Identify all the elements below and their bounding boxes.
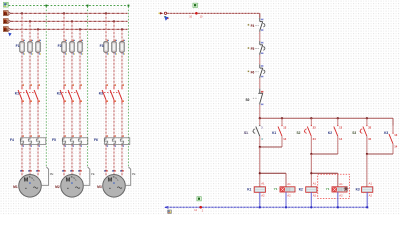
svg-text:M: M — [24, 177, 29, 183]
motor M2 — [61, 170, 84, 197]
svg-text:PE: PE — [50, 172, 54, 176]
svg-text:L3: L3 — [4, 28, 8, 32]
contact F5 (NC) — [255, 41, 265, 55]
svg-text:S2: S2 — [297, 131, 301, 135]
terminal N (neutral) — [164, 206, 168, 209]
wire K1aux lower — [281, 136, 283, 147]
wire S3 lower — [366, 136, 368, 154]
fuse F1 (3 poles) — [20, 40, 41, 55]
svg-text:14: 14 — [394, 145, 397, 149]
PE earth line (green dashed) — [9, 5, 129, 7]
svg-text:F6: F6 — [94, 138, 98, 142]
pushbutton S0 (NC) — [253, 89, 264, 105]
svg-text:A1: A1 — [261, 182, 265, 186]
svg-text:23: 23 — [313, 126, 316, 130]
svg-text:24: 24 — [313, 137, 316, 141]
wire branch1 pole2 overload-to-motor — [29, 144, 31, 176]
svg-text:A2: A2 — [261, 193, 265, 197]
wire branch2 pole2 overload-to-motor — [71, 144, 73, 176]
motor M1 — [19, 170, 42, 197]
fuse F2 (3 poles) — [62, 40, 83, 55]
bus junction x=282 — [281, 117, 283, 119]
svg-text:A1: A1 — [287, 182, 291, 186]
wire S1 lower — [259, 136, 261, 147]
tag icon N — [168, 210, 172, 213]
svg-text:14: 14 — [339, 137, 342, 141]
net tag PE — [3, 2, 8, 7]
svg-text:PE: PE — [132, 172, 136, 176]
svg-text:PE: PE — [91, 172, 95, 176]
svg-text:K1: K1 — [247, 188, 251, 192]
selection marquee (dashed) — [318, 174, 350, 198]
coil Y1 — [280, 182, 295, 198]
svg-text:F2: F2 — [58, 44, 62, 48]
svg-text:L1: L1 — [4, 12, 8, 16]
svg-text:F5: F5 — [251, 47, 255, 51]
net tag L2 — [3, 19, 8, 24]
neutral arrow marker below L3 — [8, 33, 11, 37]
svg-text:A2: A2 — [339, 194, 343, 198]
wire branch1 pole2 upper — [29, 21, 31, 42]
svg-text:S1: S1 — [244, 131, 248, 135]
svg-text:13: 13 — [339, 126, 342, 130]
svg-text:K3: K3 — [99, 91, 103, 95]
junction coil feed 2 — [310, 172, 312, 174]
junction on phase at x=72 — [71, 20, 73, 22]
contactor coil K2 — [306, 182, 317, 198]
wire branch1 pole2 fuse-to-contact — [29, 52, 31, 86]
wire branch3 pole2 upper — [113, 21, 115, 42]
wire branch1 pole1 fuse-to-contact — [21, 52, 23, 86]
junction on phase at x=80 — [79, 28, 81, 30]
aux contact K2 (NO) — [334, 118, 343, 141]
pushbutton S2 (NO) — [304, 118, 316, 141]
PE junction node 1 — [45, 5, 47, 7]
thermal overload F4 — [20, 135, 46, 147]
thermal overload F5 — [62, 135, 88, 147]
contactor K2 main contacts — [60, 84, 82, 103]
neutral drop wire x=286 — [285, 192, 287, 207]
terminal L (control supply) — [159, 13, 160, 14]
wire branch2 pole1 upper — [63, 13, 65, 42]
svg-text:M3: M3 — [97, 185, 102, 189]
svg-text:K3: K3 — [356, 188, 360, 192]
svg-text:M: M — [108, 177, 113, 183]
PE wire to motor M1 — [41, 167, 48, 186]
wire branch2 pole3 upper — [79, 29, 81, 42]
wire branch3 pole3 contact-to-overload — [121, 103, 123, 138]
svg-text:S3: S3 — [352, 131, 356, 135]
wire S0 to bus — [259, 105, 261, 119]
bus junction x=366.9 — [366, 117, 368, 119]
wire branch2 pole1 fuse-to-contact — [63, 52, 65, 86]
svg-text:K2: K2 — [328, 131, 332, 135]
svg-text:F3: F3 — [100, 44, 104, 48]
PE junction node 2 — [87, 5, 89, 7]
svg-text:13: 13 — [283, 126, 286, 130]
branch wire to coil Y1 — [260, 172, 286, 174]
wire branch1 pole1 upper — [21, 13, 23, 42]
wire branch3 pole3 fuse-to-contact — [121, 52, 123, 86]
wire branch2 pole2 upper — [71, 21, 73, 42]
control bus wire — [260, 117, 393, 119]
junction on phase at x=114 — [113, 20, 115, 22]
svg-text:F6: F6 — [251, 70, 255, 74]
contactor coil K1 — [254, 182, 265, 198]
svg-text:M2: M2 — [55, 185, 60, 189]
PE drop wire 3 — [127, 7, 129, 168]
terminal connector L2 — [9, 20, 11, 23]
svg-text:A2: A2 — [287, 194, 291, 198]
junction S3/K3 loop — [366, 153, 368, 155]
svg-text:K1: K1 — [272, 131, 276, 135]
bus junction x=337.8 — [337, 117, 339, 119]
net tag 1 (top) — [193, 3, 198, 7]
contactor K1 main contacts — [18, 84, 40, 103]
net link dot on N — [199, 206, 202, 209]
svg-text:K2: K2 — [299, 188, 303, 192]
svg-text:13: 13 — [394, 133, 397, 137]
PE wire to motor M3 — [125, 167, 131, 186]
junction on phase at x=122 — [121, 28, 123, 30]
pushbutton S3 (NO) — [360, 118, 372, 141]
svg-text:33: 33 — [368, 126, 371, 130]
neutral junction x=337.8 — [337, 206, 339, 208]
junction S2/K2 loop — [310, 153, 312, 155]
phase line L1 — [11, 12, 128, 14]
wire branch3 pole2 overload-to-motor — [113, 144, 115, 176]
PE wire to motor M2 — [83, 167, 90, 186]
svg-text:F4: F4 — [251, 24, 255, 28]
neutral junction x=367.2 — [366, 206, 368, 208]
net tag 2 (bottom) — [197, 197, 201, 201]
aux contact K1 (NO) — [278, 118, 287, 141]
neutral line N — [167, 206, 368, 208]
PE drop wire 1 — [45, 7, 47, 168]
wire to coil K2 — [310, 154, 312, 187]
motor M3 — [103, 170, 126, 197]
coil Y1 (copy in selection) — [332, 182, 347, 198]
wire branch3 pole2 contact-to-overload — [113, 103, 115, 138]
svg-text:F5: F5 — [52, 138, 56, 142]
junction on phase at x=22 — [21, 12, 23, 14]
wire to coil K1 — [259, 147, 261, 187]
svg-text:M1: M1 — [13, 185, 18, 189]
wire branch3 pole3 upper — [121, 29, 123, 42]
wire branch3 pole3 overload-to-motor — [121, 144, 123, 176]
wire branch1 pole3 upper — [37, 29, 39, 42]
neutral drop wire x=337.8 — [337, 192, 339, 207]
svg-text:K3: K3 — [384, 131, 388, 135]
svg-text:S0: S0 — [246, 98, 250, 102]
terminal connector L3 — [9, 28, 11, 31]
fuse F3 (3 poles) — [104, 40, 125, 55]
wire branch3 pole1 upper — [105, 13, 107, 42]
junction on phase at x=106 — [105, 12, 107, 14]
wire K3aux lower — [392, 144, 394, 154]
wire branch2 pole2 contact-to-overload — [71, 103, 73, 138]
bus junction x=311.3 — [310, 117, 312, 119]
PE junction node 3 — [128, 5, 130, 7]
junction on phase at x=64 — [63, 12, 65, 14]
neutral drop wire x=259.8 — [259, 192, 261, 207]
net link dot on rail — [195, 12, 198, 15]
control supply rail wire — [167, 12, 260, 14]
svg-text:Y1: Y1 — [274, 187, 278, 191]
junction on phase at x=38 — [37, 28, 39, 30]
neutral junction x=311.3 — [310, 206, 312, 208]
svg-text:A1: A1 — [339, 182, 343, 186]
wire branch3 pole1 fuse-to-contact — [105, 52, 107, 86]
svg-text:Y1: Y1 — [326, 187, 330, 191]
wire branch3 pole1 contact-to-overload — [105, 103, 107, 138]
wire S2 lower — [310, 136, 312, 154]
svg-text:L2: L2 — [4, 20, 8, 24]
phase line L2 — [11, 20, 128, 22]
terminal connector L1 — [9, 12, 11, 15]
neutral drop wire x=311.3 — [310, 192, 312, 207]
pushbutton S1 (NO) — [253, 118, 264, 141]
phase line L3 — [11, 28, 128, 30]
svg-text:K1: K1 — [15, 91, 19, 95]
svg-text:M: M — [66, 177, 71, 183]
wire branch1 pole1 overload-to-motor — [21, 144, 23, 176]
wire branch3 pole2 fuse-to-contact — [113, 52, 115, 86]
wire branch1 pole2 contact-to-overload — [29, 103, 31, 138]
svg-text:A2: A2 — [313, 193, 317, 197]
parallel loop wire 3 — [367, 153, 393, 155]
neutral junction x=286 — [285, 206, 287, 208]
wire branch2 pole1 contact-to-overload — [63, 103, 65, 138]
wire branch2 pole2 fuse-to-contact — [71, 52, 73, 86]
svg-text:14: 14 — [283, 137, 286, 141]
parallel loop wire 2 — [311, 153, 338, 155]
branch wire to coil Y1 copy — [311, 172, 338, 174]
page-reference arrow below terminal L — [164, 16, 166, 18]
wire branch1 pole3 contact-to-overload — [37, 103, 39, 138]
contactor coil K3 — [362, 182, 373, 198]
wire branch1 pole1 contact-to-overload — [21, 103, 23, 138]
aux contact K3 (NO) — [389, 126, 398, 149]
wire branch2 pole3 fuse-to-contact — [79, 52, 81, 86]
wire to coil K3 — [366, 154, 368, 187]
junction coil feed 1 — [259, 172, 261, 174]
wire branch2 pole3 contact-to-overload — [79, 103, 81, 138]
svg-text:A2: A2 — [369, 193, 373, 197]
wire F5-F6 — [259, 55, 261, 65]
wire branch2 pole3 overload-to-motor — [79, 144, 81, 176]
wire F6-S0 — [259, 78, 261, 89]
mouse cursor — [344, 187, 349, 191]
svg-text:A1: A1 — [313, 182, 317, 186]
contact F6 (NC) — [255, 64, 265, 78]
neutral drop wire x=367.2 — [366, 192, 368, 207]
contactor K3 main contacts — [102, 84, 124, 103]
junction on phase at x=30 — [29, 20, 31, 22]
wire K2aux lower — [337, 136, 339, 154]
bus junction x=259.8 — [259, 117, 261, 119]
PE drop wire 2 — [87, 7, 89, 168]
svg-text:F1: F1 — [16, 44, 20, 48]
wire rail corner down to F4 — [259, 13, 261, 18]
thermal overload F6 — [104, 135, 130, 147]
svg-text:A1: A1 — [369, 182, 373, 186]
wire branch3 pole1 overload-to-motor — [105, 144, 107, 176]
svg-text:F4: F4 — [10, 138, 14, 142]
neutral junction x=259.8 — [259, 206, 261, 208]
wire branch2 pole1 overload-to-motor — [63, 144, 65, 176]
net tag L3 — [3, 27, 8, 32]
junction S1/K1 loop — [259, 146, 261, 148]
net tag L1 — [3, 11, 8, 16]
wire branch1 pole3 fuse-to-contact — [37, 52, 39, 86]
contact F4 (NC) — [255, 18, 265, 32]
wire branch1 pole3 overload-to-motor — [37, 144, 39, 176]
svg-text:34: 34 — [368, 137, 371, 141]
bus corner down right — [392, 118, 394, 126]
wire F4-F5 — [259, 32, 261, 41]
svg-text:K2: K2 — [57, 91, 61, 95]
parallel loop wire 1 — [260, 146, 282, 148]
